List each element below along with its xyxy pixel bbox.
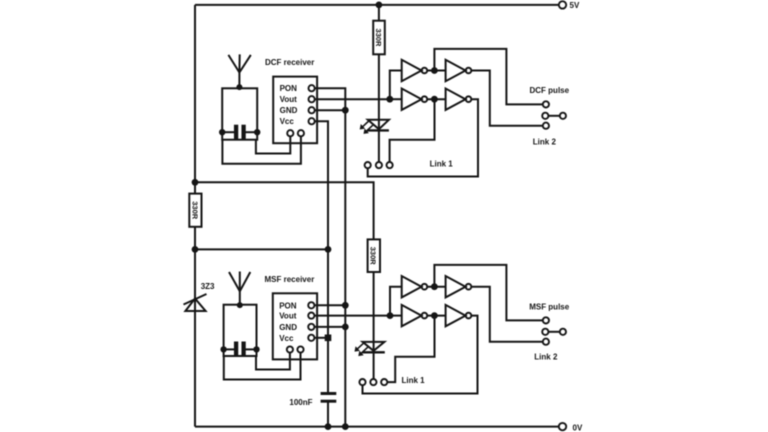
svg-text:DCF pulse: DCF pulse [530, 86, 570, 95]
svg-text:MSF pulse: MSF pulse [529, 303, 570, 312]
svg-text:330R: 330R [369, 247, 378, 266]
svg-text:GND: GND [279, 323, 297, 332]
svg-text:330R: 330R [374, 29, 383, 48]
svg-text:Vout: Vout [280, 95, 298, 104]
svg-text:5V: 5V [570, 1, 580, 10]
svg-text:Vcc: Vcc [279, 334, 294, 343]
svg-text:Link 1: Link 1 [430, 159, 454, 168]
svg-text:3Z3: 3Z3 [201, 282, 215, 291]
svg-text:0V: 0V [573, 424, 583, 432]
svg-text:Link 2: Link 2 [534, 352, 558, 361]
svg-text:Link 2: Link 2 [533, 137, 557, 146]
svg-text:330R: 330R [190, 201, 199, 220]
svg-text:Vcc: Vcc [280, 117, 295, 126]
svg-text:Vout: Vout [279, 312, 297, 321]
svg-text:PON: PON [280, 84, 298, 93]
svg-text:MSF receiver: MSF receiver [265, 275, 315, 284]
svg-text:PON: PON [279, 301, 297, 310]
svg-text:DCF receiver: DCF receiver [265, 58, 314, 67]
svg-text:Link 1: Link 1 [402, 376, 426, 385]
svg-text:100nF: 100nF [289, 398, 312, 407]
svg-text:GND: GND [280, 106, 298, 115]
